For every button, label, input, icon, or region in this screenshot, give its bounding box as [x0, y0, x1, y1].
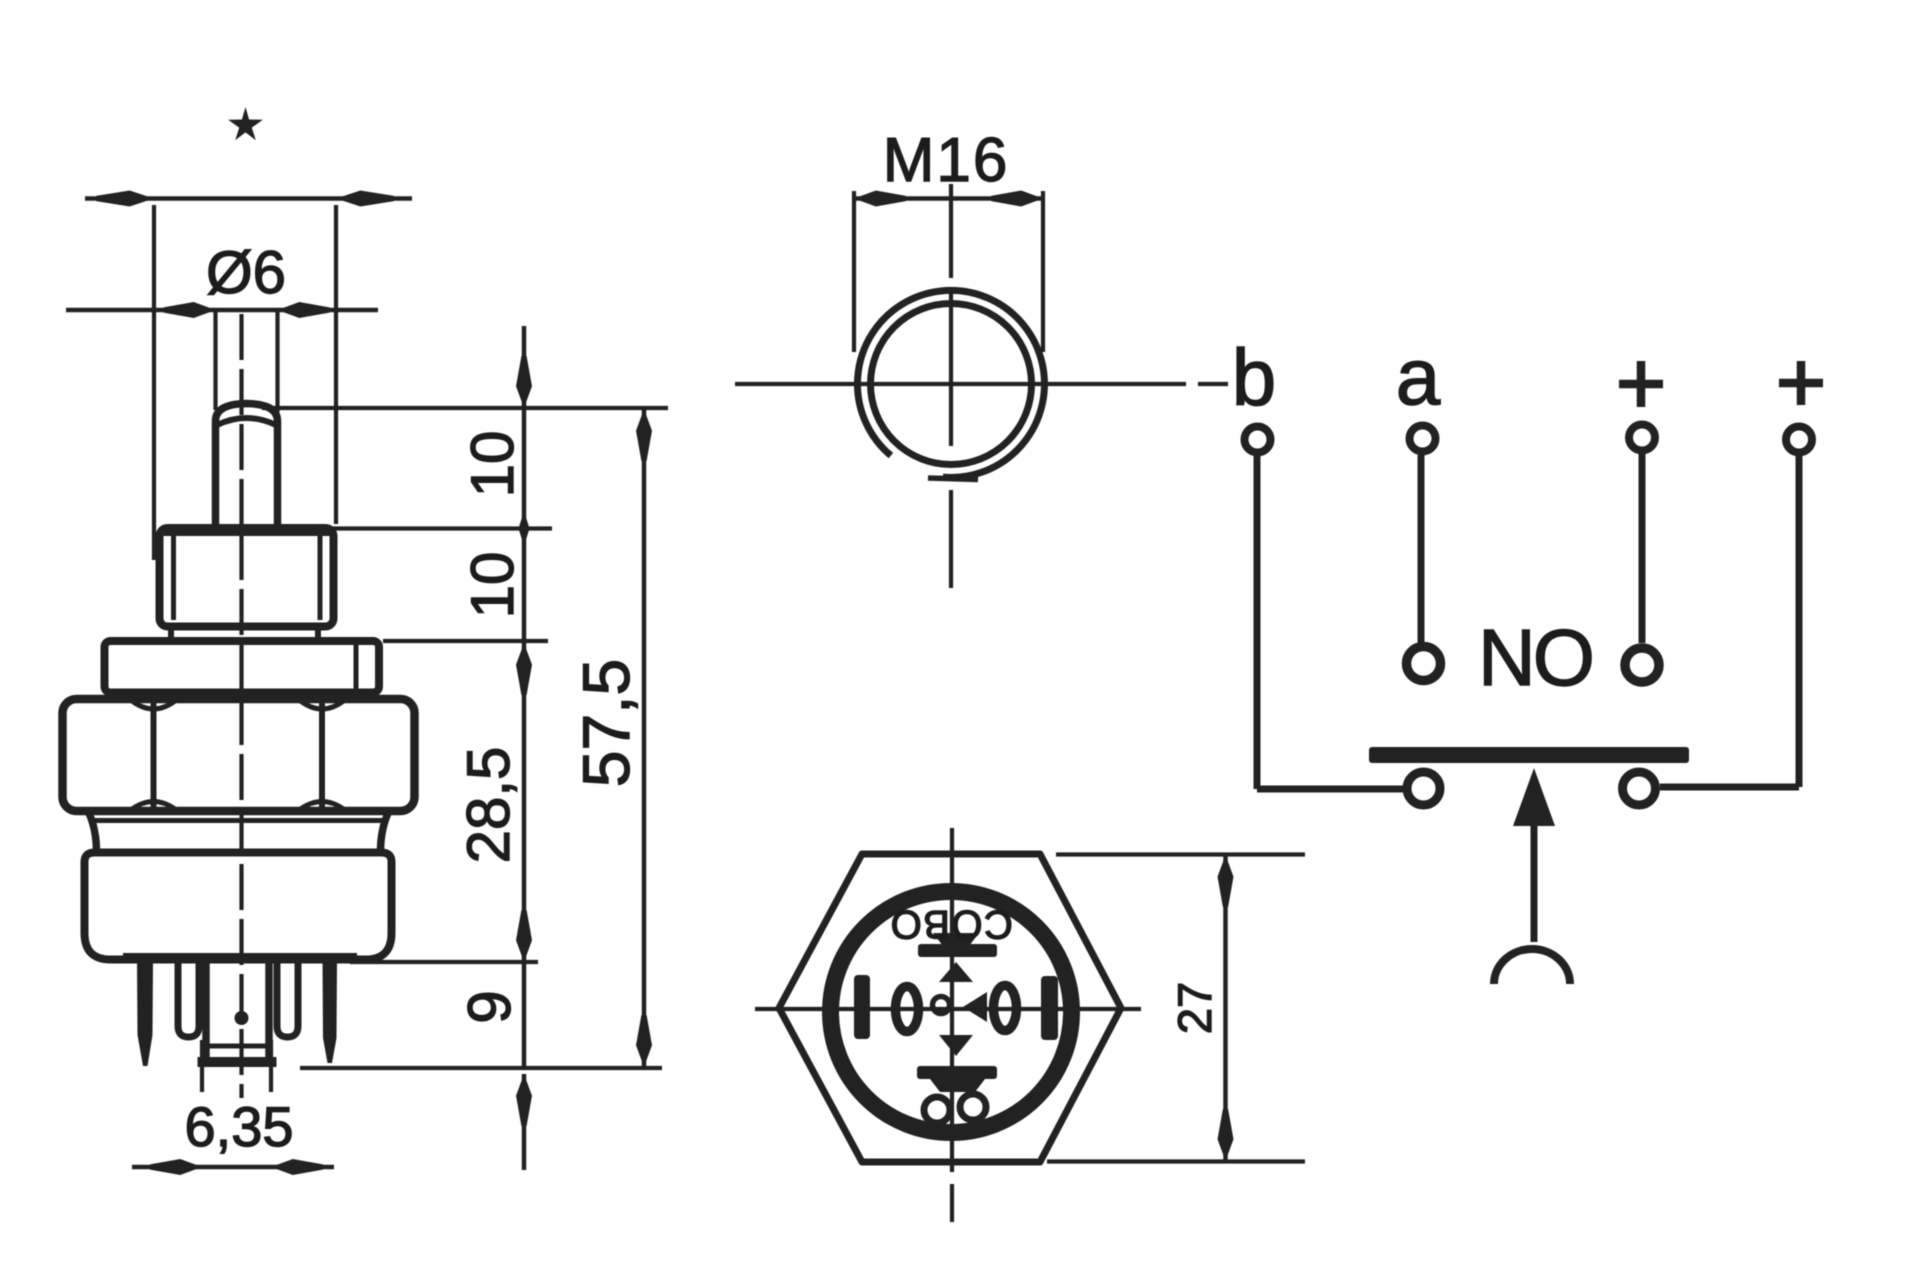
svg-text:28,5: 28,5 [455, 747, 522, 864]
svg-text:b: b [1232, 333, 1277, 422]
svg-text:57,5: 57,5 [569, 659, 643, 787]
svg-text:27: 27 [1168, 982, 1221, 1034]
svg-text:6,35: 6,35 [185, 1095, 294, 1158]
svg-text:a: a [1396, 332, 1441, 421]
svg-text:10: 10 [459, 552, 526, 619]
svg-text:10: 10 [459, 431, 526, 498]
svg-text:9: 9 [456, 990, 523, 1023]
svg-text:Ø6: Ø6 [206, 239, 286, 306]
svg-text:M16: M16 [883, 126, 1010, 195]
svg-text:NO: NO [1478, 613, 1592, 702]
